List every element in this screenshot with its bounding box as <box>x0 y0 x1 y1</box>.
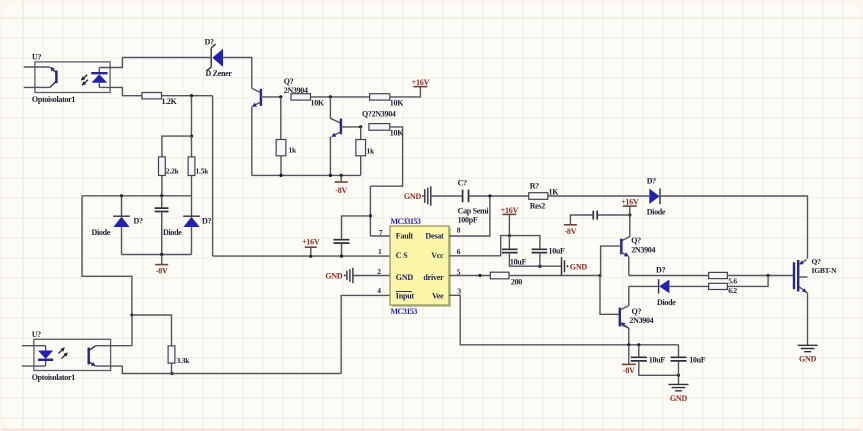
resistor 10K (to +16V) <box>370 94 390 100</box>
svg-text:2N3904: 2N3904 <box>631 246 655 255</box>
svg-text:1: 1 <box>378 247 382 256</box>
svg-text:Cap Semi: Cap Semi <box>458 206 490 215</box>
diode D? (turn-off) <box>658 279 660 293</box>
wire opto1 to zener <box>99 58 210 68</box>
wire diode to IGBT collector <box>660 196 808 259</box>
wire to earth <box>678 375 680 384</box>
wire 1.2K to node <box>162 95 213 97</box>
svg-text:Q?: Q? <box>812 257 822 266</box>
svg-text:4: 4 <box>377 286 381 295</box>
svg-text:1k: 1k <box>289 146 298 155</box>
junction +16V / CS <box>309 255 312 258</box>
svg-text:D?: D? <box>202 217 211 226</box>
wire opto2 emitter / input rail <box>96 366 342 373</box>
wire opto1 pin2 (left bottom) <box>24 86 50 88</box>
svg-text:D?: D? <box>205 37 214 46</box>
svg-text:10uF: 10uF <box>510 257 527 266</box>
wire input rail up to pin4 <box>341 295 390 373</box>
wire 6.2 up to gate node <box>727 276 768 287</box>
IGBT collector arrow <box>800 260 807 265</box>
junction bottom rail / -8V <box>160 253 163 256</box>
transistor Q1 2N3904 <box>260 89 262 106</box>
svg-text:GND: GND <box>396 273 414 282</box>
svg-text:Desat: Desat <box>425 232 444 241</box>
wire pin8 to desat node <box>449 196 490 236</box>
wire Q1 base <box>261 96 281 98</box>
svg-text:D?: D? <box>134 216 143 225</box>
IGBT Q? IGBT-N <box>793 262 795 289</box>
junction 1k no.1 / rail <box>279 174 282 177</box>
wire 2.2k bottom <box>161 176 163 196</box>
svg-text:Optoisolator1: Optoisolator1 <box>32 373 76 382</box>
svg-text:2: 2 <box>377 267 381 276</box>
svg-text:D?: D? <box>647 177 656 186</box>
resistor 1k (Q1 pulldown) <box>280 97 282 140</box>
junction pin5 <box>478 274 481 277</box>
wire 1k bottom <box>280 156 282 176</box>
resistor 200 <box>490 272 509 279</box>
junction driver bases <box>598 274 601 277</box>
opto1 phototransistor <box>55 71 57 84</box>
opto2 LED <box>45 346 47 366</box>
turn-off diode triangle <box>659 280 669 294</box>
gnd dot C7 <box>422 195 424 197</box>
svg-text:5.6: 5.6 <box>728 276 737 285</box>
wire blanking cap to CS line <box>341 243 343 256</box>
Q4 arrow <box>621 323 628 328</box>
capacitor 10uF (right) <box>532 249 548 252</box>
svg-text:Diode: Diode <box>657 298 676 307</box>
svg-text:Q?: Q? <box>284 77 294 86</box>
svg-text:+16V: +16V <box>621 198 639 207</box>
svg-text:1.5k: 1.5k <box>196 166 210 175</box>
wire diode to 6.2 <box>669 285 708 287</box>
wire opto2 pin2 <box>22 365 46 367</box>
svg-text:10uF: 10uF <box>649 355 666 364</box>
resistor 6.2 (turn-off) <box>709 283 728 289</box>
wire clamp rail bottom <box>122 254 192 256</box>
opto2 phototransistor <box>87 348 89 365</box>
svg-text:GND: GND <box>799 355 817 364</box>
svg-text:Vee: Vee <box>432 292 444 301</box>
svg-text:-8V: -8V <box>623 366 635 375</box>
wire Q4 collector down <box>620 324 629 344</box>
svg-text:C S: C S <box>396 251 408 260</box>
svg-text:MC33153: MC33153 <box>391 217 421 226</box>
optoisolator U7 (bottom) box <box>34 339 111 370</box>
wire rail left to opto2 node <box>82 196 132 315</box>
capacitor 10uF (Vee left) <box>638 345 640 358</box>
wire Q4 base <box>600 276 619 315</box>
wire Q2 emitter down <box>329 137 331 176</box>
svg-text:8: 8 <box>457 226 461 235</box>
svg-text:+16V: +16V <box>501 206 519 215</box>
wire pin5 <box>449 275 490 277</box>
junction Vee rail / Q4 <box>627 343 630 346</box>
power -8V (Q1 Q2 rail) <box>335 181 348 183</box>
junction divider top <box>190 135 193 138</box>
wire pin3 Vee rail <box>449 295 679 345</box>
wire node down to opto2 collector <box>131 315 133 346</box>
opto1 transistor arrow <box>50 67 56 73</box>
svg-text:1k: 1k <box>367 147 376 156</box>
svg-text:Input: Input <box>396 292 415 301</box>
opto2 light arrow 1 <box>59 348 65 354</box>
power +16V (top) <box>413 86 427 88</box>
zener diode D? (D Zener) <box>207 44 216 70</box>
gnd dot pin2 <box>344 275 346 277</box>
svg-text:10K: 10K <box>311 99 325 108</box>
resistor 10K (Q1 base) <box>291 94 311 100</box>
svg-text:U?: U? <box>32 330 41 339</box>
wire left diode to bottom rail <box>121 227 123 255</box>
svg-text:+16V: +16V <box>412 78 430 87</box>
resistor 1k (Q2) <box>360 127 362 140</box>
svg-text:6: 6 <box>457 247 461 256</box>
left clamp diode triangle <box>113 217 129 227</box>
junction rail / left diode <box>120 194 123 197</box>
wire Q4 emitter to diode <box>629 285 659 287</box>
wire fault node vertical <box>369 186 371 236</box>
wire 1K to diode <box>548 195 649 197</box>
wire to 2.2k top <box>162 136 192 157</box>
svg-text:7: 7 <box>379 228 383 237</box>
power GND (cap bank) <box>562 257 565 275</box>
junction opto2 collector node <box>130 313 133 316</box>
junction +16V / cap bank <box>508 234 511 237</box>
capacitor (driver bypass) <box>593 211 597 220</box>
svg-text:+16V: +16V <box>302 237 320 246</box>
wire opto1 to 1.2K <box>99 87 142 95</box>
svg-text:Q?: Q? <box>631 236 641 245</box>
svg-text:200: 200 <box>511 277 522 286</box>
svg-text:3: 3 <box>457 287 461 296</box>
svg-text:10K: 10K <box>390 99 404 108</box>
gnd dot cap bank <box>567 265 569 267</box>
junction rail / cap <box>160 194 163 197</box>
wire node down to CS line <box>212 96 214 256</box>
svg-text:-8V: -8V <box>156 266 168 275</box>
svg-text:GND: GND <box>670 394 688 403</box>
wire CS line pin1 <box>213 255 390 257</box>
wire to 1.5k top <box>191 136 193 157</box>
svg-text:driver: driver <box>423 273 444 282</box>
junction Q2 collector node <box>329 95 332 98</box>
capacitor 10uF (Vee right) <box>678 345 680 358</box>
wire node to Q2 collector <box>330 97 341 123</box>
opto1 light arrow 2 <box>82 80 88 85</box>
resistor 1.5k <box>188 157 195 176</box>
svg-text:Q?2N3904: Q?2N3904 <box>362 109 396 118</box>
wire cap bottoms to gnd <box>509 253 561 267</box>
junction -8V stem / rail <box>340 174 343 177</box>
svg-text:Vcc: Vcc <box>431 251 444 260</box>
junction 3.3k / input rail <box>170 372 173 375</box>
power +16V (Vcc) <box>502 213 516 215</box>
opto1 LED triangle <box>92 74 108 83</box>
junction +16V bypass <box>628 213 631 216</box>
svg-text:GND: GND <box>325 271 343 280</box>
svg-text:MC3153: MC3153 <box>391 307 418 316</box>
opto1 LED <box>98 68 100 88</box>
svg-text:2N3904: 2N3904 <box>629 316 653 325</box>
power -8V (clamp rail) <box>161 255 163 265</box>
svg-text:D Zener: D Zener <box>206 69 233 78</box>
wire clamp rail top <box>82 195 192 197</box>
wire pin7 stub <box>370 235 390 237</box>
zener triangle <box>212 49 223 67</box>
capacitor C7 100pF <box>463 190 469 203</box>
junction Vee rail / cap <box>637 343 640 346</box>
svg-text:-8V: -8V <box>564 227 576 236</box>
wire to bypass cap <box>597 214 630 216</box>
desat diode triangle <box>649 189 659 204</box>
Q1 emitter arrow <box>252 102 261 107</box>
svg-text:2.2k: 2.2k <box>166 166 180 175</box>
junction Q1 base node <box>279 95 282 98</box>
wire fault to blanking cap <box>342 216 371 240</box>
wire IGBT emitter to GND <box>807 293 809 345</box>
svg-text:GND: GND <box>570 262 588 271</box>
driver IC U? MC33153 <box>392 228 451 307</box>
power +16V (CS) <box>305 246 317 248</box>
svg-text:10uF: 10uF <box>689 355 706 364</box>
svg-text:10uF: 10uF <box>549 246 566 255</box>
junction C7 / pin8 <box>488 194 491 197</box>
svg-text:1.2K: 1.2K <box>162 97 178 106</box>
svg-text:Diode: Diode <box>647 207 666 216</box>
wire 10K to node <box>311 96 370 98</box>
wire Q3 emitter to 5.6 <box>629 275 709 277</box>
junction Vee caps / GND <box>677 374 680 377</box>
wire 10K to +16V <box>390 87 421 97</box>
diode D? (right clamp) <box>183 215 200 217</box>
wire Q3 base <box>601 246 622 275</box>
svg-text:Fault: Fault <box>396 232 414 241</box>
Q3 emitter arrow <box>621 252 628 256</box>
wire Q3 emitter down <box>628 257 630 276</box>
wire Q2 base <box>341 126 361 128</box>
wire Q3 collector <box>622 215 630 241</box>
power -8V (Vee rail) <box>622 363 636 365</box>
capacitor 10uF (left) <box>508 236 510 250</box>
svg-text:GND: GND <box>404 192 422 201</box>
junction cap / CS <box>340 255 343 258</box>
wire zener to Q1 collector <box>223 58 252 89</box>
wire gnd to C7 <box>431 195 463 197</box>
right clamp diode triangle <box>183 217 199 227</box>
wire C7 to 1K <box>469 195 529 197</box>
wire node down <box>191 96 193 136</box>
svg-text:C?: C? <box>458 179 467 188</box>
wire opto2 collector <box>96 345 133 347</box>
wire 1.5k bottom to diode <box>191 176 193 217</box>
wire 5.6 to IGBT gate <box>727 275 794 277</box>
earth ground (IGBT) <box>798 345 818 351</box>
wire Vee caps bottom <box>639 361 679 375</box>
junction 1.2K node <box>190 94 193 97</box>
resistor R? 1K Res2 <box>529 193 548 200</box>
wire node to 3.3k top <box>132 315 172 346</box>
wire 1k no.2 bottom <box>360 156 362 176</box>
Q2 emitter arrow <box>332 132 341 137</box>
resistor 1.2K <box>142 93 162 99</box>
diode D? (left clamp) <box>121 196 123 216</box>
resistor 3.3k <box>168 346 175 363</box>
svg-text:R?: R? <box>530 181 539 190</box>
svg-text:100pF: 100pF <box>458 216 478 225</box>
resistor 10K (Q2 base) <box>369 124 390 131</box>
wire opto1 pin1 (left top) <box>24 66 50 68</box>
resistor 2.2k <box>159 157 166 176</box>
wire opto2 pin1 <box>22 345 46 347</box>
wire bypass cap to -8V <box>570 215 593 225</box>
wire 200 to driver bases <box>509 275 600 277</box>
resistor 5.6 (turn-on) <box>709 272 728 278</box>
wire Q4 emitter up <box>628 286 630 305</box>
junction cap B bottom <box>538 265 541 268</box>
svg-text:6.2: 6.2 <box>728 286 737 295</box>
opto2 transistor arrow <box>89 362 96 366</box>
earth ground (Vee) <box>669 384 689 390</box>
junction Q2 base node <box>359 125 362 128</box>
wire right diode to bottom rail <box>191 227 193 255</box>
capacitor (clamp mid) <box>161 196 163 208</box>
wire pin2 stub <box>353 275 390 277</box>
optoisolator U7 (top) box <box>35 62 110 93</box>
svg-text:Diode: Diode <box>92 228 111 237</box>
opto2 light arrow 2 <box>62 353 68 359</box>
svg-text:U?: U? <box>32 53 41 62</box>
svg-text:Diode: Diode <box>163 228 182 237</box>
wire 3.3k bottom <box>171 363 173 373</box>
wire Q1 emitter down <box>251 107 253 176</box>
power +16V (driver) <box>623 205 637 207</box>
power -8V clamp <box>155 264 168 266</box>
capacitor (CS blanking) <box>334 240 350 243</box>
junction Q2 emitter / rail <box>329 174 332 177</box>
junction gate node <box>767 274 770 277</box>
opto1 light arrow 1 <box>81 75 87 80</box>
opto2 LED triangle <box>38 351 53 359</box>
junction fault node <box>369 214 372 217</box>
power GND bars pin2 <box>346 271 348 281</box>
svg-text:Res2: Res2 <box>530 201 546 210</box>
svg-text:1K: 1K <box>549 187 560 196</box>
svg-text:-8V: -8V <box>335 186 347 195</box>
IGBT emitter arrow <box>799 287 806 292</box>
svg-text:D?: D? <box>656 266 665 275</box>
power GND bars C7 <box>424 189 426 203</box>
svg-text:IGBT-N: IGBT-N <box>812 266 838 275</box>
power -8V (driver bypass) <box>564 224 577 226</box>
svg-text:Optoisolator1: Optoisolator1 <box>32 95 76 104</box>
wire Q2 10K jog down <box>370 127 402 186</box>
wire -8V rail <box>252 174 361 176</box>
svg-text:3.3k: 3.3k <box>177 356 191 365</box>
wire pin6 to cap bank <box>449 236 540 256</box>
